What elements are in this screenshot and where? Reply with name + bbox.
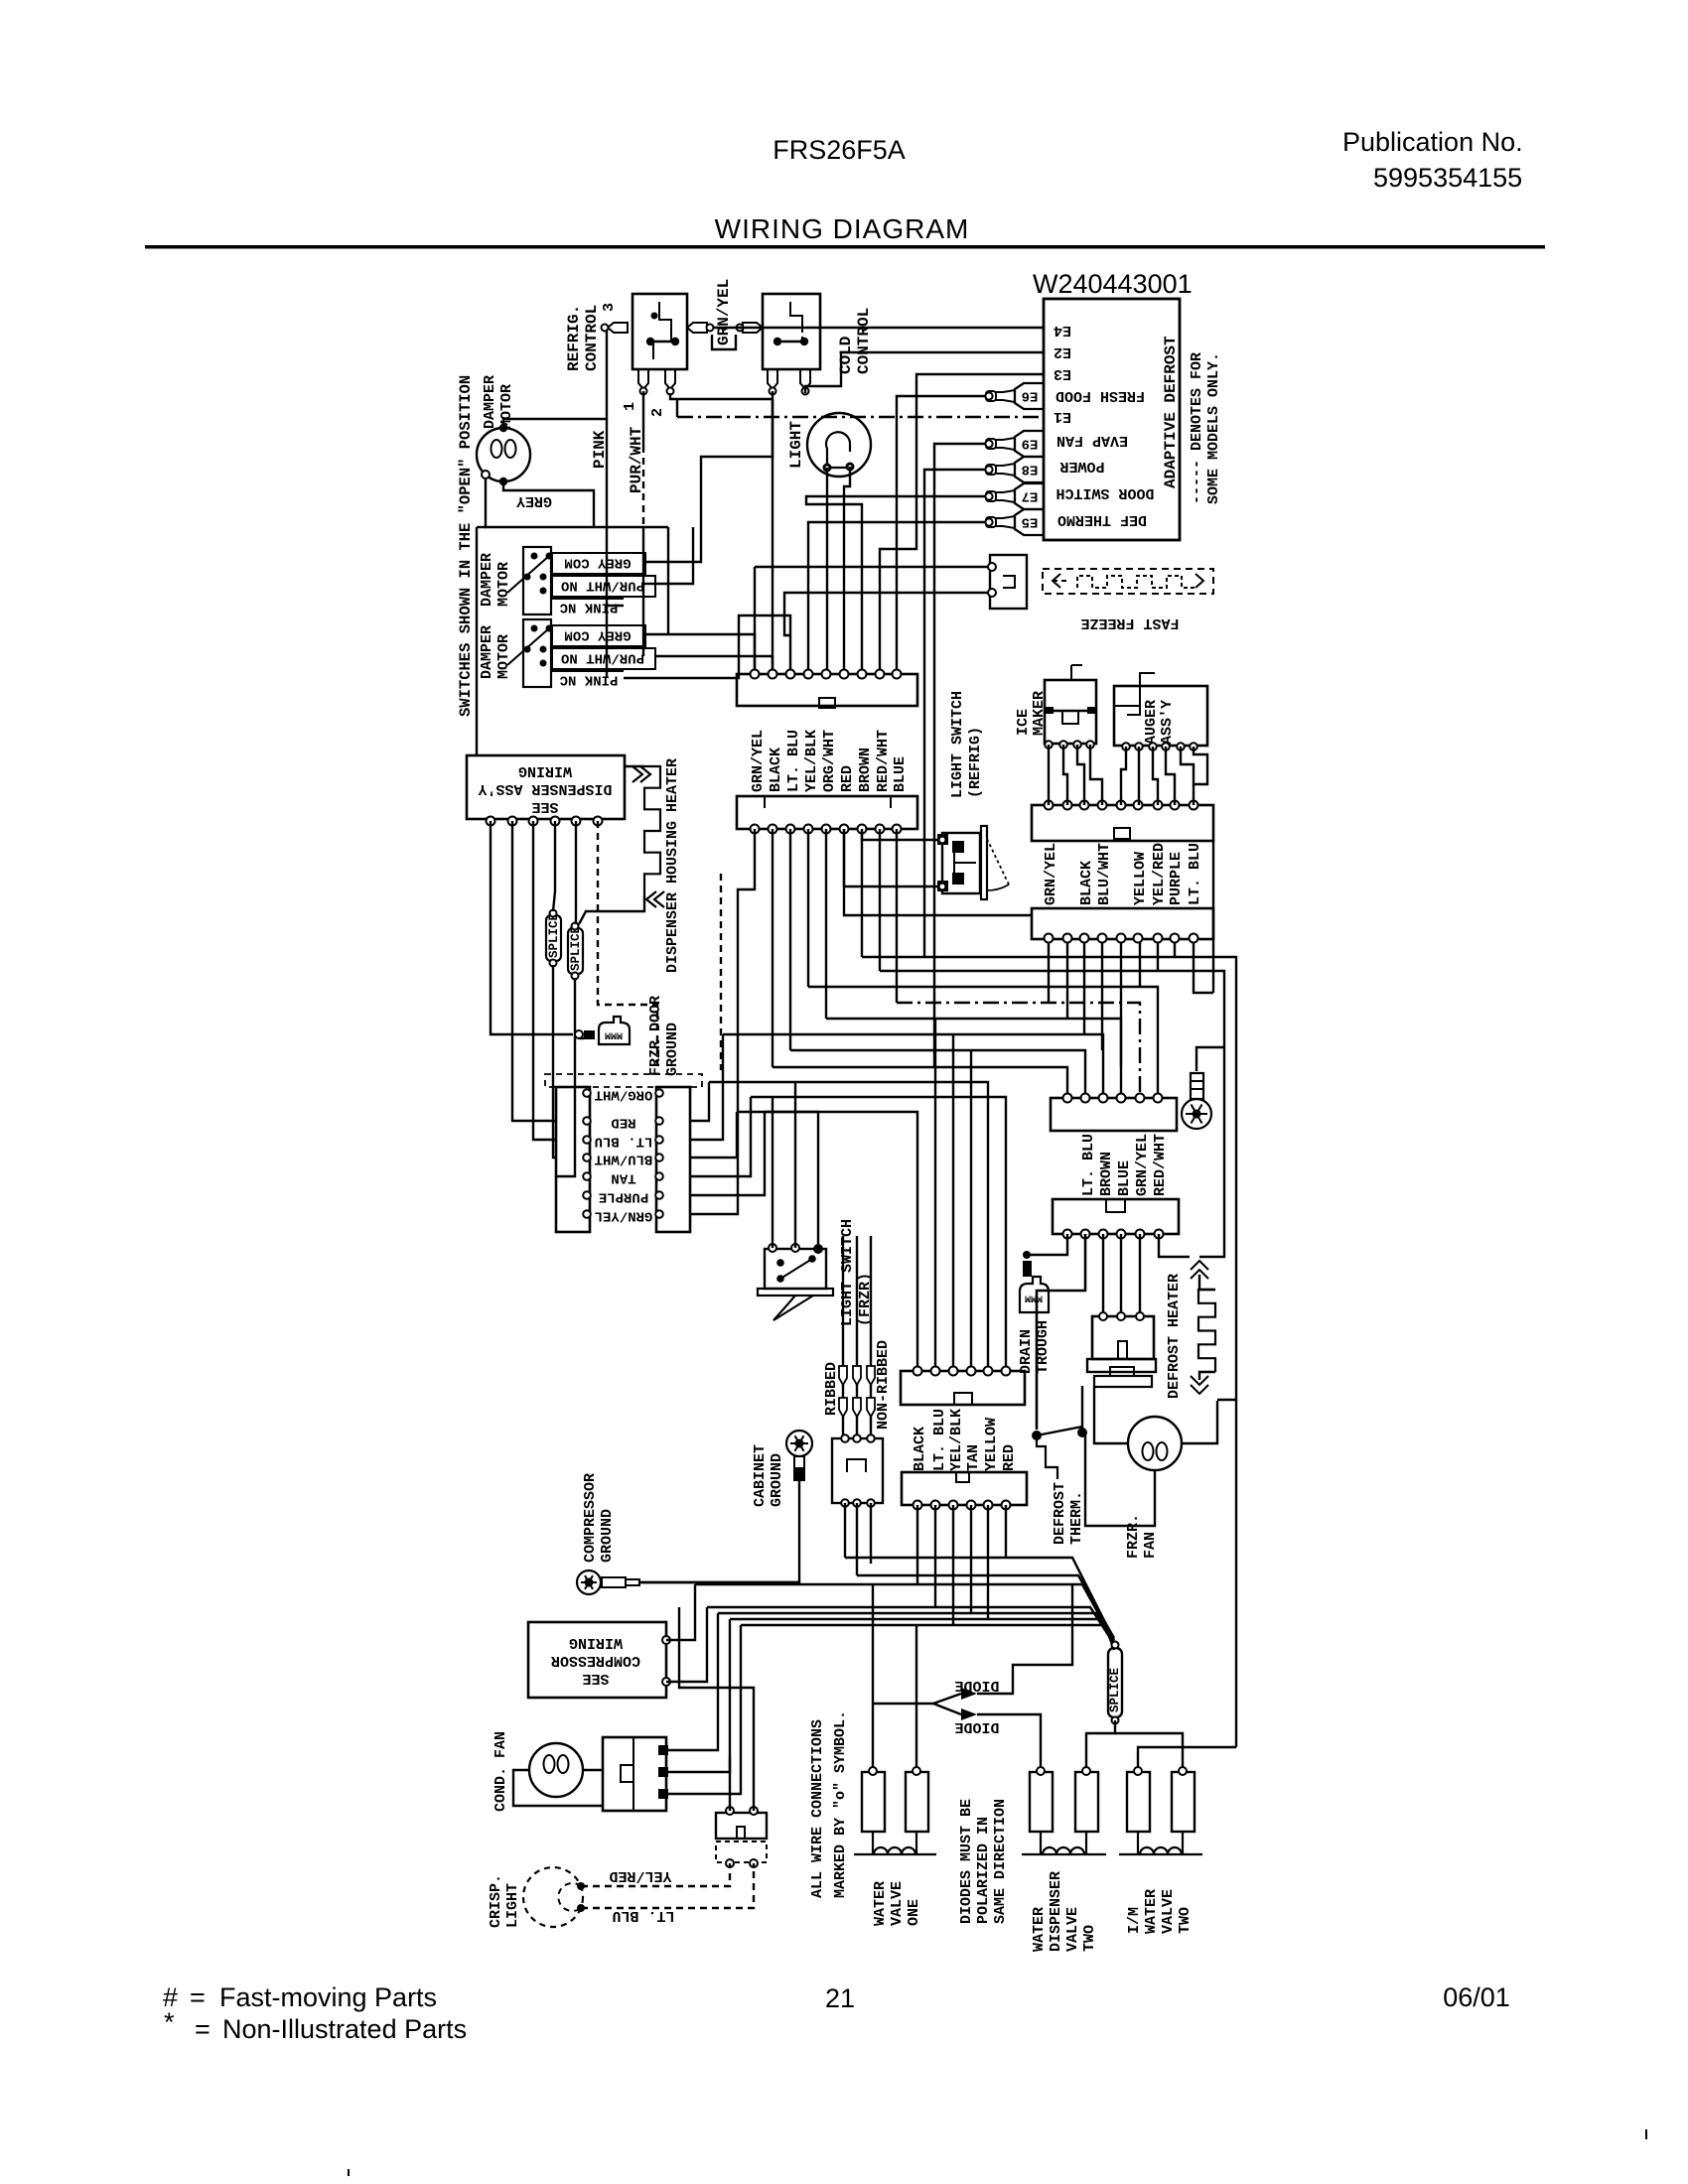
wires from connector D down bbox=[1030, 1234, 1067, 1255]
wires cond fan bbox=[513, 1770, 603, 1806]
svg-text:5995354155: 5995354155 bbox=[1373, 163, 1522, 193]
defrost heater assembly bbox=[1092, 1316, 1154, 1359]
svg-text:ORG/WHT: ORG/WHT bbox=[821, 730, 838, 792]
water valve solenoid bbox=[1127, 1772, 1150, 1832]
svg-text:YEL/RED: YEL/RED bbox=[609, 1867, 671, 1884]
svg-text:DIODES MUST BE: DIODES MUST BE bbox=[958, 1799, 975, 1924]
fast freeze dashed harness bbox=[1043, 569, 1213, 594]
contact bar GREY COM bbox=[552, 553, 645, 574]
svg-text:LT. BLU: LT. BLU bbox=[785, 730, 802, 792]
condenser connector bbox=[716, 1813, 767, 1839]
wires to fast freeze connector bbox=[755, 566, 988, 568]
svg-text:TWO: TWO bbox=[1081, 1925, 1098, 1952]
pin 3 spade bbox=[608, 323, 628, 333]
connector E7 bbox=[1015, 483, 1044, 509]
svg-text:=: = bbox=[195, 2014, 211, 2044]
svg-text:REFRIG.: REFRIG. bbox=[565, 305, 583, 371]
svg-text:POWER: POWER bbox=[1059, 458, 1104, 475]
compressor harness connector lower bbox=[902, 1472, 1027, 1505]
wire E6 fresh food bbox=[897, 396, 985, 670]
svg-text:SPLICE: SPLICE bbox=[569, 926, 583, 971]
svg-text:----- DENOTES FOR: ----- DENOTES FOR bbox=[1189, 352, 1205, 504]
refrig control right spade bbox=[687, 323, 707, 333]
svg-text:LIGHT: LIGHT bbox=[787, 421, 805, 469]
wires from compressor box bbox=[666, 1584, 695, 1640]
svg-text:WIRING DIAGRAM: WIRING DIAGRAM bbox=[715, 213, 970, 244]
svg-text:SOME MODELS ONLY.: SOME MODELS ONLY. bbox=[1205, 352, 1222, 504]
svg-text:CONTROL: CONTROL bbox=[855, 308, 873, 374]
svg-text:RED/WHT: RED/WHT bbox=[875, 730, 892, 792]
svg-text:DISPENSER HOUSING HEATER: DISPENSER HOUSING HEATER bbox=[664, 758, 681, 973]
wire pur/wht bbox=[642, 391, 644, 446]
svg-text:ASS'Y: ASS'Y bbox=[1159, 700, 1176, 745]
wire E8 power bbox=[924, 470, 985, 957]
wires from relay bbox=[668, 1613, 718, 1750]
connector E5 bbox=[1015, 509, 1044, 535]
svg-text:BLUE: BLUE bbox=[892, 756, 909, 792]
wire E2 bbox=[805, 352, 1044, 393]
dashed wires crisp light bbox=[581, 1863, 730, 1886]
wire refrig pin2 to cold control bbox=[670, 393, 773, 399]
damper motor switch assembly bbox=[523, 547, 551, 614]
adaptive defrost control board bbox=[1044, 299, 1180, 540]
wires to condenser connector bbox=[729, 1757, 731, 1811]
svg-text:WIRING: WIRING bbox=[518, 762, 572, 779]
svg-text:PINK NC: PINK NC bbox=[559, 671, 618, 687]
wire pur/wht to bar bbox=[643, 583, 655, 585]
svg-text:RIBBED: RIBBED bbox=[823, 1362, 840, 1416]
wires to valves bbox=[1086, 1720, 1115, 1771]
svg-text:ORG/WHT: ORG/WHT bbox=[595, 1086, 653, 1102]
svg-text:MARKED BY "o" SYMBOL.: MARKED BY "o" SYMBOL. bbox=[832, 1710, 849, 1898]
svg-text:DOOR SWITCH: DOOR SWITCH bbox=[1055, 484, 1154, 501]
svg-text:YEL/BLK: YEL/BLK bbox=[803, 730, 820, 792]
horizontal runs to right connectors bbox=[862, 957, 1236, 1400]
svg-text:CRISP.: CRISP. bbox=[488, 1874, 504, 1928]
right connector C bbox=[1051, 1098, 1177, 1131]
svg-text:(REFRIG): (REFRIG) bbox=[967, 727, 984, 798]
defrost thermostat bbox=[1032, 1431, 1042, 1440]
svg-text:E8: E8 bbox=[1022, 461, 1039, 477]
see dispenser assy wiring box bbox=[467, 755, 625, 819]
svg-text:=: = bbox=[190, 1982, 206, 2012]
dashed org/wht wire bbox=[720, 874, 722, 1070]
svg-text:FRS26F5A: FRS26F5A bbox=[773, 135, 906, 165]
svg-text:GREY COM: GREY COM bbox=[564, 554, 631, 570]
evap fan symbol bbox=[1191, 1073, 1203, 1099]
svg-text:E2: E2 bbox=[1054, 343, 1071, 360]
svg-text:LT. BLU: LT. BLU bbox=[931, 1409, 948, 1471]
svg-text:WATER: WATER bbox=[1031, 1907, 1048, 1952]
wire pink bbox=[606, 419, 608, 678]
frzr door connector (right half) bbox=[656, 1087, 690, 1232]
splice 1 bbox=[546, 915, 561, 961]
svg-text:3: 3 bbox=[601, 303, 618, 312]
svg-text:21: 21 bbox=[825, 1983, 855, 2013]
svg-text:06/01: 06/01 bbox=[1443, 1982, 1510, 2012]
svg-text:GRN/YEL: GRN/YEL bbox=[1134, 1134, 1151, 1196]
pin 2 spade bbox=[665, 369, 675, 389]
svg-text:DAMPER: DAMPER bbox=[479, 625, 495, 679]
svg-text:DEF THERMO: DEF THERMO bbox=[1057, 511, 1147, 528]
svg-text:TAN: TAN bbox=[965, 1444, 982, 1471]
svg-text:E3: E3 bbox=[1054, 365, 1071, 382]
wire E5 def thermo bbox=[808, 522, 985, 670]
svg-text:2: 2 bbox=[649, 408, 666, 417]
water valve solenoid bbox=[1030, 1772, 1053, 1832]
compressor wire bundle bbox=[845, 1558, 1114, 1640]
svg-text:Non-Illustrated Parts: Non-Illustrated Parts bbox=[222, 2014, 467, 2044]
svg-text:DAMPER: DAMPER bbox=[479, 553, 495, 607]
wire therm right bbox=[1081, 1386, 1083, 1433]
wires frzr fan bbox=[1094, 1387, 1128, 1443]
svg-text:BLACK: BLACK bbox=[768, 748, 784, 792]
contact bar GREY COM bbox=[552, 625, 645, 646]
defrost heater element bbox=[1198, 1290, 1215, 1372]
contact bar PUR/WHT NO bbox=[552, 576, 655, 597]
wire to dispenser box bbox=[476, 527, 478, 755]
svg-text:LT. BLU: LT. BLU bbox=[612, 1907, 674, 1924]
svg-text:Fast-moving Parts: Fast-moving Parts bbox=[219, 1982, 437, 2012]
svg-text:SAME DIRECTION: SAME DIRECTION bbox=[992, 1799, 1009, 1924]
wire pin3 to damper motor bbox=[503, 329, 608, 428]
wires compressor connector down to bundle bbox=[916, 1505, 918, 1584]
compressor harness connector upper bbox=[901, 1371, 1025, 1405]
svg-text:YEL/BLK: YEL/BLK bbox=[948, 1409, 965, 1471]
wire from light switch refrig bbox=[862, 831, 937, 840]
wire E1 (dash-dot) bbox=[677, 416, 1044, 418]
svg-text:BLU/WHT: BLU/WHT bbox=[1096, 843, 1113, 905]
see compressor wiring box bbox=[528, 1622, 666, 1698]
svg-text:VALVE: VALVE bbox=[889, 1881, 906, 1926]
svg-text:WATER: WATER bbox=[872, 1881, 889, 1926]
contact bar PUR/WHT NO bbox=[552, 648, 655, 669]
wires auger to connector A bbox=[1121, 747, 1126, 805]
svg-text:LT. BLU: LT. BLU bbox=[1080, 1134, 1097, 1196]
wire cabinet ground down bbox=[641, 1480, 799, 1582]
svg-text:RED/WHT: RED/WHT bbox=[1152, 1134, 1169, 1196]
svg-text:PINK NC: PINK NC bbox=[559, 599, 618, 614]
svg-text:FRESH FOOD: FRESH FOOD bbox=[1055, 387, 1145, 404]
wires into upper connector from above bbox=[754, 567, 756, 670]
harness connector (lower) bbox=[737, 796, 917, 829]
svg-text:BLU/WHT: BLU/WHT bbox=[595, 1151, 653, 1166]
svg-text:COND. FAN: COND. FAN bbox=[492, 1731, 509, 1812]
wire E4 bbox=[713, 328, 1044, 331]
svg-text:RED: RED bbox=[1001, 1444, 1018, 1471]
wire connector A right bbox=[1212, 840, 1214, 993]
connector E6 bbox=[1015, 383, 1044, 409]
svg-text:ADAPTIVE DEFROST: ADAPTIVE DEFROST bbox=[1162, 336, 1180, 488]
svg-text:ALL WIRE CONNECTIONS: ALL WIRE CONNECTIONS bbox=[809, 1719, 826, 1898]
svg-text:E5: E5 bbox=[1022, 513, 1039, 529]
cold control bottom pins bbox=[768, 369, 777, 389]
wire E3 bbox=[880, 374, 1044, 670]
svg-text:TWO: TWO bbox=[1177, 1907, 1194, 1934]
svg-text:CONTROL: CONTROL bbox=[583, 305, 601, 371]
svg-text:BLUE: BLUE bbox=[1116, 1160, 1133, 1196]
svg-text:GREY: GREY bbox=[516, 492, 552, 509]
svg-text:*: * bbox=[164, 2007, 175, 2037]
svg-text:W240443001: W240443001 bbox=[1033, 269, 1193, 299]
harness connector (upper) bbox=[737, 674, 917, 706]
svg-text:GRN/YEL: GRN/YEL bbox=[1043, 843, 1059, 905]
svg-text:ICE: ICE bbox=[1015, 709, 1032, 736]
svg-text:GROUND: GROUND bbox=[599, 1509, 616, 1563]
svg-text:GROUND: GROUND bbox=[664, 1023, 681, 1076]
wire to ground bbox=[579, 1037, 584, 1039]
svg-text:PURPLE: PURPLE bbox=[599, 1188, 648, 1204]
svg-text:MOTOR: MOTOR bbox=[495, 562, 512, 607]
svg-text:TAN: TAN bbox=[611, 1169, 635, 1185]
right connector A bbox=[1032, 805, 1213, 841]
wires from dispenser box bbox=[491, 821, 573, 1034]
svg-text:FRZR.: FRZR. bbox=[1125, 1514, 1142, 1559]
svg-text:PUR/WHT NO: PUR/WHT NO bbox=[561, 649, 644, 665]
svg-text:MMM: MMM bbox=[1025, 1292, 1043, 1302]
wires ice maker to connector A bbox=[1048, 745, 1050, 805]
svg-text:YEL/RED: YEL/RED bbox=[1151, 843, 1168, 905]
svg-text:ONE: ONE bbox=[906, 1899, 922, 1926]
water valve solenoid bbox=[862, 1772, 885, 1832]
svg-text:AUGER: AUGER bbox=[1143, 700, 1160, 745]
svg-text:FAN: FAN bbox=[1142, 1532, 1159, 1559]
svg-text:BLACK: BLACK bbox=[1078, 861, 1095, 905]
wires to frzr light switch bbox=[772, 1097, 774, 1248]
diode wires bbox=[933, 1694, 961, 1704]
drain trough ground bbox=[1020, 1277, 1049, 1312]
damper motor (top) bbox=[477, 428, 530, 481]
wire grn/yel link bbox=[712, 335, 736, 349]
svg-text:DEFROST: DEFROST bbox=[1052, 1482, 1068, 1545]
wire damper motor aux bbox=[486, 478, 668, 527]
svg-text:LT. BLU: LT. BLU bbox=[595, 1133, 653, 1149]
svg-text:SPLICE: SPLICE bbox=[547, 913, 561, 958]
svg-text:COMPRESSOR: COMPRESSOR bbox=[551, 1652, 640, 1669]
svg-text:COMPRESSOR: COMPRESSOR bbox=[582, 1473, 599, 1563]
wire E7 door switch bbox=[806, 496, 985, 670]
svg-text:SWITCHES SHOWN IN THE "OPEN" P: SWITCHES SHOWN IN THE "OPEN" POSITION bbox=[457, 375, 475, 717]
svg-text:WIRING: WIRING bbox=[569, 1634, 623, 1651]
chassis ground symbol bbox=[599, 1017, 630, 1044]
svg-text:LIGHT: LIGHT bbox=[504, 1883, 521, 1928]
svg-text:CABINET: CABINET bbox=[752, 1444, 769, 1507]
freezer fan motor bbox=[1128, 1417, 1182, 1470]
svg-text:SPLICE: SPLICE bbox=[1108, 1668, 1122, 1712]
cold control switch bbox=[763, 294, 820, 369]
svg-text:PUR/WHT NO: PUR/WHT NO bbox=[561, 577, 644, 593]
ribbed connector box bbox=[832, 1438, 883, 1503]
svg-text:GRN/YEL: GRN/YEL bbox=[595, 1207, 653, 1223]
frzr door connector (left half) bbox=[556, 1087, 590, 1232]
verticals to compressor connector bbox=[934, 1019, 936, 1371]
svg-text:Publication No.: Publication No. bbox=[1342, 127, 1523, 157]
svg-text:GRN/YEL: GRN/YEL bbox=[750, 730, 767, 792]
svg-text:SEE: SEE bbox=[582, 1670, 609, 1687]
compressor relay bbox=[603, 1737, 666, 1811]
wire damper motor grey bbox=[503, 481, 594, 527]
wires out of frzr door connector bbox=[690, 1082, 709, 1121]
svg-text:NON-RIBBED: NON-RIBBED bbox=[875, 1340, 892, 1430]
svg-text:E6: E6 bbox=[1022, 387, 1039, 403]
svg-text:FAST FREEZE: FAST FREEZE bbox=[1080, 614, 1179, 631]
svg-text:POLARIZED IN: POLARIZED IN bbox=[975, 1817, 992, 1924]
fast freeze connector bbox=[990, 555, 1027, 609]
svg-text:DISPENSER ASS'Y: DISPENSER ASS'Y bbox=[478, 780, 612, 797]
svg-text:TROUGH: TROUGH bbox=[1035, 1320, 1052, 1374]
svg-text:YELLOW: YELLOW bbox=[1132, 852, 1149, 905]
dashed cover bbox=[545, 1074, 702, 1087]
wires from damper switch bars bbox=[645, 391, 773, 562]
fan stem wire bbox=[1196, 1047, 1224, 1071]
splice (right) bbox=[1108, 1648, 1122, 1717]
svg-text:SEE: SEE bbox=[531, 798, 558, 815]
svg-text:E4: E4 bbox=[1054, 322, 1071, 339]
pin 1 spade bbox=[638, 369, 648, 389]
svg-text:VALVE: VALVE bbox=[1064, 1907, 1081, 1952]
svg-text:1: 1 bbox=[622, 402, 638, 411]
svg-text:DEFROST HEATER: DEFROST HEATER bbox=[1166, 1274, 1183, 1399]
auger assembly bbox=[1114, 686, 1207, 746]
right connector D bbox=[1053, 1199, 1179, 1234]
svg-text:VALVE: VALVE bbox=[1160, 1889, 1177, 1934]
svg-text:EVAP FAN: EVAP FAN bbox=[1056, 432, 1128, 449]
svg-text:RED: RED bbox=[611, 1114, 635, 1130]
refrig. control switch bbox=[633, 294, 687, 369]
svg-text:GREY COM: GREY COM bbox=[564, 626, 631, 642]
svg-text:BLACK: BLACK bbox=[912, 1427, 928, 1471]
svg-text:THERM.: THERM. bbox=[1068, 1491, 1085, 1545]
svg-text:E9: E9 bbox=[1022, 435, 1039, 451]
svg-text:E7: E7 bbox=[1022, 487, 1039, 503]
right connector B bbox=[1032, 908, 1213, 939]
wire E9 evap fan bbox=[934, 444, 985, 1067]
svg-text:LT. BLU: LT. BLU bbox=[1187, 843, 1203, 905]
connector E8 bbox=[1015, 457, 1044, 482]
wire maze - lower connector fanout bbox=[690, 829, 755, 1214]
svg-text:MMM: MMM bbox=[605, 1028, 623, 1039]
svg-text:I/M: I/M bbox=[1126, 1907, 1143, 1934]
svg-text:FRZR DOOR: FRZR DOOR bbox=[647, 996, 664, 1076]
svg-text:GROUND: GROUND bbox=[769, 1453, 785, 1507]
svg-text:COLD: COLD bbox=[837, 337, 855, 374]
svg-text:BROWN: BROWN bbox=[1098, 1152, 1115, 1196]
svg-text:E1: E1 bbox=[1054, 408, 1071, 425]
svg-text:DIODE: DIODE bbox=[954, 1718, 999, 1735]
refrigerator light bbox=[807, 413, 871, 477]
svg-text:MOTOR: MOTOR bbox=[495, 634, 512, 679]
svg-text:LIGHT SWITCH: LIGHT SWITCH bbox=[949, 691, 966, 798]
connector E9 bbox=[1015, 431, 1044, 457]
svg-text:WATER: WATER bbox=[1143, 1889, 1160, 1934]
svg-text:LIGHT SWITCH: LIGHT SWITCH bbox=[839, 1219, 856, 1326]
svg-text:DISPENSER: DISPENSER bbox=[1048, 1871, 1064, 1952]
header rule bbox=[145, 245, 1545, 249]
damper motor switch assembly bbox=[523, 619, 551, 687]
svg-text:YELLOW: YELLOW bbox=[983, 1418, 1000, 1471]
svg-text:RED: RED bbox=[839, 765, 856, 792]
svg-text:DRAIN: DRAIN bbox=[1018, 1329, 1035, 1374]
svg-text:BROWN: BROWN bbox=[857, 748, 874, 792]
wires from right conn B down bbox=[1048, 938, 1050, 1003]
splice 2 bbox=[568, 928, 583, 974]
ice maker bbox=[1045, 680, 1096, 744]
svg-text:PURPLE: PURPLE bbox=[1168, 852, 1185, 905]
svg-text:DAMPER: DAMPER bbox=[482, 375, 498, 429]
svg-text:MOTOR: MOTOR bbox=[498, 384, 515, 429]
svg-text:GRN/YEL: GRN/YEL bbox=[715, 279, 733, 345]
cold control left spade bbox=[743, 323, 763, 333]
svg-text:MAKER: MAKER bbox=[1031, 691, 1048, 736]
